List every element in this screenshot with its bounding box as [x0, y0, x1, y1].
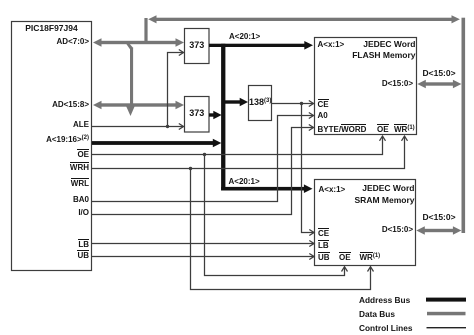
legend control lines sample line	[427, 327, 467, 328]
wire data bus tap from AD<7:0> down to AD<15:8>	[124, 41, 135, 116]
pin ALE label	[9, 121, 89, 129]
wire OE branch down and right to SRAM OE riser	[205, 155, 348, 276]
microcontroller U1 PIC18F97J94 box	[12, 22, 92, 271]
pin WRL label	[9, 178, 89, 188]
label FLASH A<x:1>	[318, 41, 345, 49]
label FLASH Memory	[314, 51, 416, 60]
wire data bus top run (double arrow)	[148, 15, 460, 23]
pin FLASH CE label	[318, 99, 329, 109]
pin AD<7:0> label	[9, 38, 89, 46]
junction OE branch	[203, 153, 206, 156]
pin FLASH A0 label	[318, 112, 328, 120]
wire data bus AD<15:8> (gray, double arrow PIC to U3)	[93, 101, 184, 109]
wire address bus vertical trunk	[221, 44, 225, 191]
net label A<20:1> bottom	[229, 178, 260, 186]
net label D<15:0> right top	[423, 69, 456, 78]
wire WRH branch down and right to SRAM WR riser	[191, 169, 374, 290]
legend Address Bus label	[359, 296, 410, 305]
pin FLASH BYTE/WORD label	[318, 124, 367, 134]
wire data bus D<15:0> SRAM to right bus (double arrow)	[416, 226, 461, 234]
legend Data Bus label	[359, 310, 395, 319]
wire 138 decoder output to FLASH CE	[272, 101, 314, 107]
label JEDEC Word (SRAM)	[314, 184, 415, 193]
wire data bus D<15:0> FLASH to right bus (double arrow)	[417, 80, 461, 88]
wire ALE branch up to U2 latch enable	[168, 50, 184, 127]
wire 138 output branch down to SRAM CE	[302, 104, 315, 236]
label 138(3) decoder	[249, 98, 271, 109]
pin FLASH WR(1) label	[394, 124, 415, 135]
wire address bus A<19:16> from PIC into trunk	[92, 139, 221, 148]
wire address bus from U3 latch into trunk	[209, 111, 222, 119]
label FLASH D<15:0>	[313, 80, 413, 88]
label 373 upper latch	[185, 41, 210, 50]
label SRAM Memory	[314, 196, 415, 205]
pin OE label	[9, 149, 89, 159]
pin BA0 label	[9, 196, 89, 204]
latch U2 373 (upper) box	[185, 29, 210, 64]
label SRAM A<x:1>	[319, 186, 346, 194]
pin SRAM OE label	[339, 252, 351, 262]
wire data bus riser from AD<7:0> up to top data bus	[144, 18, 147, 44]
label SRAM D<15:0>	[313, 226, 413, 234]
label JEDEC Word (FLASH)	[314, 40, 416, 49]
pin SRAM WR(1) label	[360, 252, 381, 263]
wire ALE to U3 latch enable	[92, 124, 184, 130]
pin SRAM LB label	[318, 240, 329, 250]
pin WRH label	[9, 162, 89, 172]
wire OE control PIC to FLASH OE riser	[92, 136, 386, 155]
junction 138 output branch	[300, 102, 303, 105]
wire WRH control PIC to FLASH WR riser	[92, 136, 408, 169]
legend address bus sample line	[426, 298, 466, 302]
net label D<15:0> right bottom	[423, 213, 456, 222]
pin LB label	[9, 239, 89, 249]
wire LB from PIC to SRAM LB	[92, 241, 314, 247]
wire address bus A<20:1> from U2 latch to FLASH A<x:1>	[209, 41, 313, 50]
label PIC18F97J94 title	[11, 24, 92, 33]
pin I/O label	[9, 209, 89, 217]
junction ALE branch	[166, 125, 169, 128]
pin FLASH OE label	[377, 124, 389, 134]
pin AD<15:8> label	[9, 101, 89, 109]
wire UB from PIC to SRAM UB	[92, 254, 314, 260]
wire I/O from PIC to FLASH BYTE/WORD	[92, 125, 314, 215]
pin SRAM UB label	[318, 252, 330, 262]
wire BA0 from PIC to FLASH A0	[92, 113, 314, 202]
wire address bus trunk into 138 decoder	[224, 98, 248, 106]
junction WRH branch	[189, 167, 192, 170]
legend Control Lines label	[359, 324, 412, 333]
pin A<19:16>(2) label	[9, 136, 89, 145]
legend data bus sample line	[427, 312, 466, 316]
pin SRAM CE label	[318, 228, 329, 238]
pin UB label	[9, 250, 89, 260]
net label A<20:1> top	[229, 33, 260, 41]
wire data bus right vertical run	[462, 18, 466, 233]
memory U5 JEDEC Word FLASH Memory box	[315, 38, 417, 135]
latch U3 373 (lower) box	[185, 97, 210, 133]
label 373 lower latch	[185, 109, 210, 118]
memory U6 JEDEC Word SRAM Memory box	[315, 180, 416, 266]
wire address bus A<20:1> bottom run into SRAM A<x:1>	[221, 184, 312, 193]
decoder U4 138 box	[249, 86, 272, 121]
wire data bus AD<7:0> (gray, double arrow PIC to U2)	[93, 38, 184, 46]
